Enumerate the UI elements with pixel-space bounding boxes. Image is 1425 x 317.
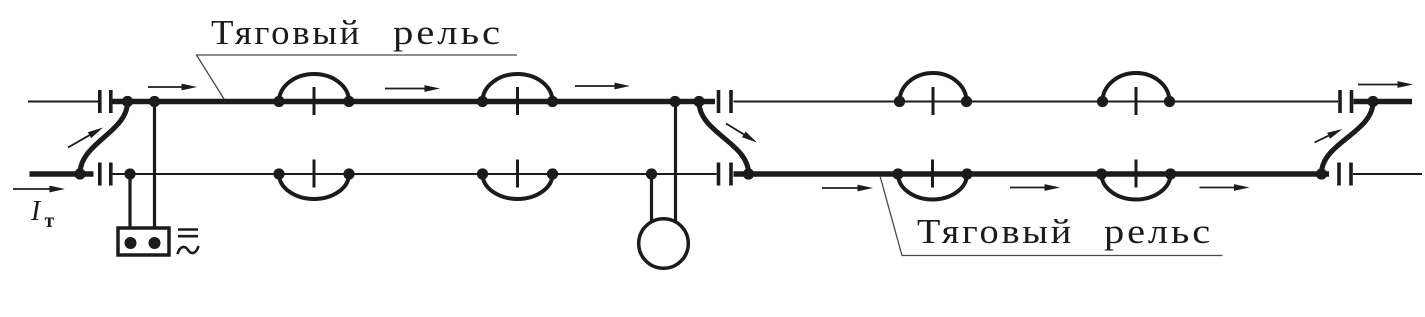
insulated joint: top rail middle (two bars) — [719, 90, 732, 113]
bond jumper S1 (bottom stub to top rail, left) — [80, 102, 128, 174]
bottom rail: signal rail thin segment (left span) — [113, 173, 717, 175]
svg-text:Тяговый: Тяговый — [211, 13, 362, 52]
bond jumper S2 (top rail to bottom rail, middle) — [699, 102, 749, 174]
insulated joint: top rail right (two bars) — [1340, 90, 1352, 113]
top rail: signal rail thin segment (far left) — [28, 101, 98, 103]
substation terminal dots — [125, 237, 161, 249]
insulated joint: bottom rail middle (two bars) — [719, 163, 732, 186]
bottom rail: signal rail thin segment (far right) — [1353, 173, 1422, 175]
current arrow B3 on bottom rail — [1200, 184, 1250, 191]
label: Тяговый рельс (top) — [211, 13, 503, 52]
junction node: substation feeder tap on top rail — [149, 96, 160, 107]
current arrow B2 on bottom rail — [1010, 184, 1060, 191]
junction node: bond jumper to top rail — [122, 96, 133, 107]
current arrow B1 on bottom rail — [822, 185, 873, 192]
rail joint with bond jumper: top rail x=933 — [894, 73, 972, 115]
junction node: bond jumper to bottom rail (middle) — [743, 168, 754, 179]
leader line for bottom label — [880, 176, 1223, 256]
rail joint with bond jumper: bottom rail x=517.5 — [477, 160, 558, 200]
top rail: traction exit thick segment (far right) — [1354, 99, 1413, 105]
bottom rail: traction rail thick segment (right span) — [734, 171, 1330, 177]
current arrow A3 on top rail — [575, 83, 630, 90]
top rail: signal rail thin segment (right span) — [734, 101, 1339, 103]
wire: top rail to track relay (crosses bottom rail) — [674, 102, 677, 222]
rail joint with bond jumper: bottom rail x=314 — [273, 160, 354, 200]
svg-text:I: I — [30, 196, 42, 227]
bottom rail: traction entry thick stub (far left) — [30, 171, 94, 177]
bond jumper S3 (bottom rail to top rail, far right) — [1322, 102, 1374, 174]
current arrow A1 on top rail — [148, 84, 197, 91]
junction node: bond jumper from top rail (middle) — [693, 96, 704, 107]
wire: top rail to substation terminal — [153, 102, 156, 229]
current arrow on jumper S2 — [726, 124, 757, 143]
insulated joint: top rail left (two bars) — [100, 90, 111, 113]
svg-text:рельс: рельс — [1104, 212, 1213, 251]
junction node: bond jumper to top rail (far right) — [1367, 96, 1378, 107]
current arrow A2 on top rail — [385, 85, 440, 92]
svg-text:рельс: рельс — [393, 13, 503, 52]
rail joint with bond jumper: bottom rail x=932.5 — [892, 160, 972, 200]
track relay (circle) — [639, 219, 689, 269]
rail joint with bond jumper: top rail x=314 — [273, 74, 354, 115]
leader line for top label — [197, 55, 518, 99]
current arrow It (entry) — [13, 186, 65, 193]
insulated joint: bottom rail right (two bars) — [1339, 163, 1351, 186]
current arrow on jumper S3 — [1315, 129, 1343, 143]
wire: bottom rail to substation terminal — [128, 174, 131, 228]
junction node: bond jumper from bottom rail (far right) — [1316, 168, 1327, 179]
junction node: bond jumper from bottom rail stub — [74, 168, 85, 179]
rail joint with bond jumper: top rail x=517.5 — [477, 74, 558, 115]
junction node: relay wire tap on top rail — [669, 96, 680, 107]
substation box — [118, 228, 169, 255]
current arrow on jumper S1 — [68, 128, 103, 148]
svg-text:Тяговый: Тяговый — [917, 212, 1074, 251]
substation DC/AC symbol (= over ~) — [178, 230, 199, 255]
label: Тяговый рельс (bottom) — [917, 212, 1213, 251]
junction node: substation feeder tap on bottom rail — [124, 168, 135, 179]
junction node: relay wire tap on bottom rail — [646, 168, 657, 179]
label I_т (traction current) — [30, 196, 55, 232]
current arrow A4 exit — [1358, 81, 1413, 88]
rail joint with bond jumper: top rail x=1136 — [1097, 73, 1175, 115]
rail joint with bond jumper: bottom rail x=1136 — [1096, 160, 1176, 200]
insulated joint: bottom rail left (two bars) — [100, 163, 111, 186]
svg-text:т: т — [45, 211, 55, 232]
wire: bottom rail to track relay — [650, 174, 653, 221]
top rail: traction rail thick segment (left span) — [113, 99, 716, 105]
